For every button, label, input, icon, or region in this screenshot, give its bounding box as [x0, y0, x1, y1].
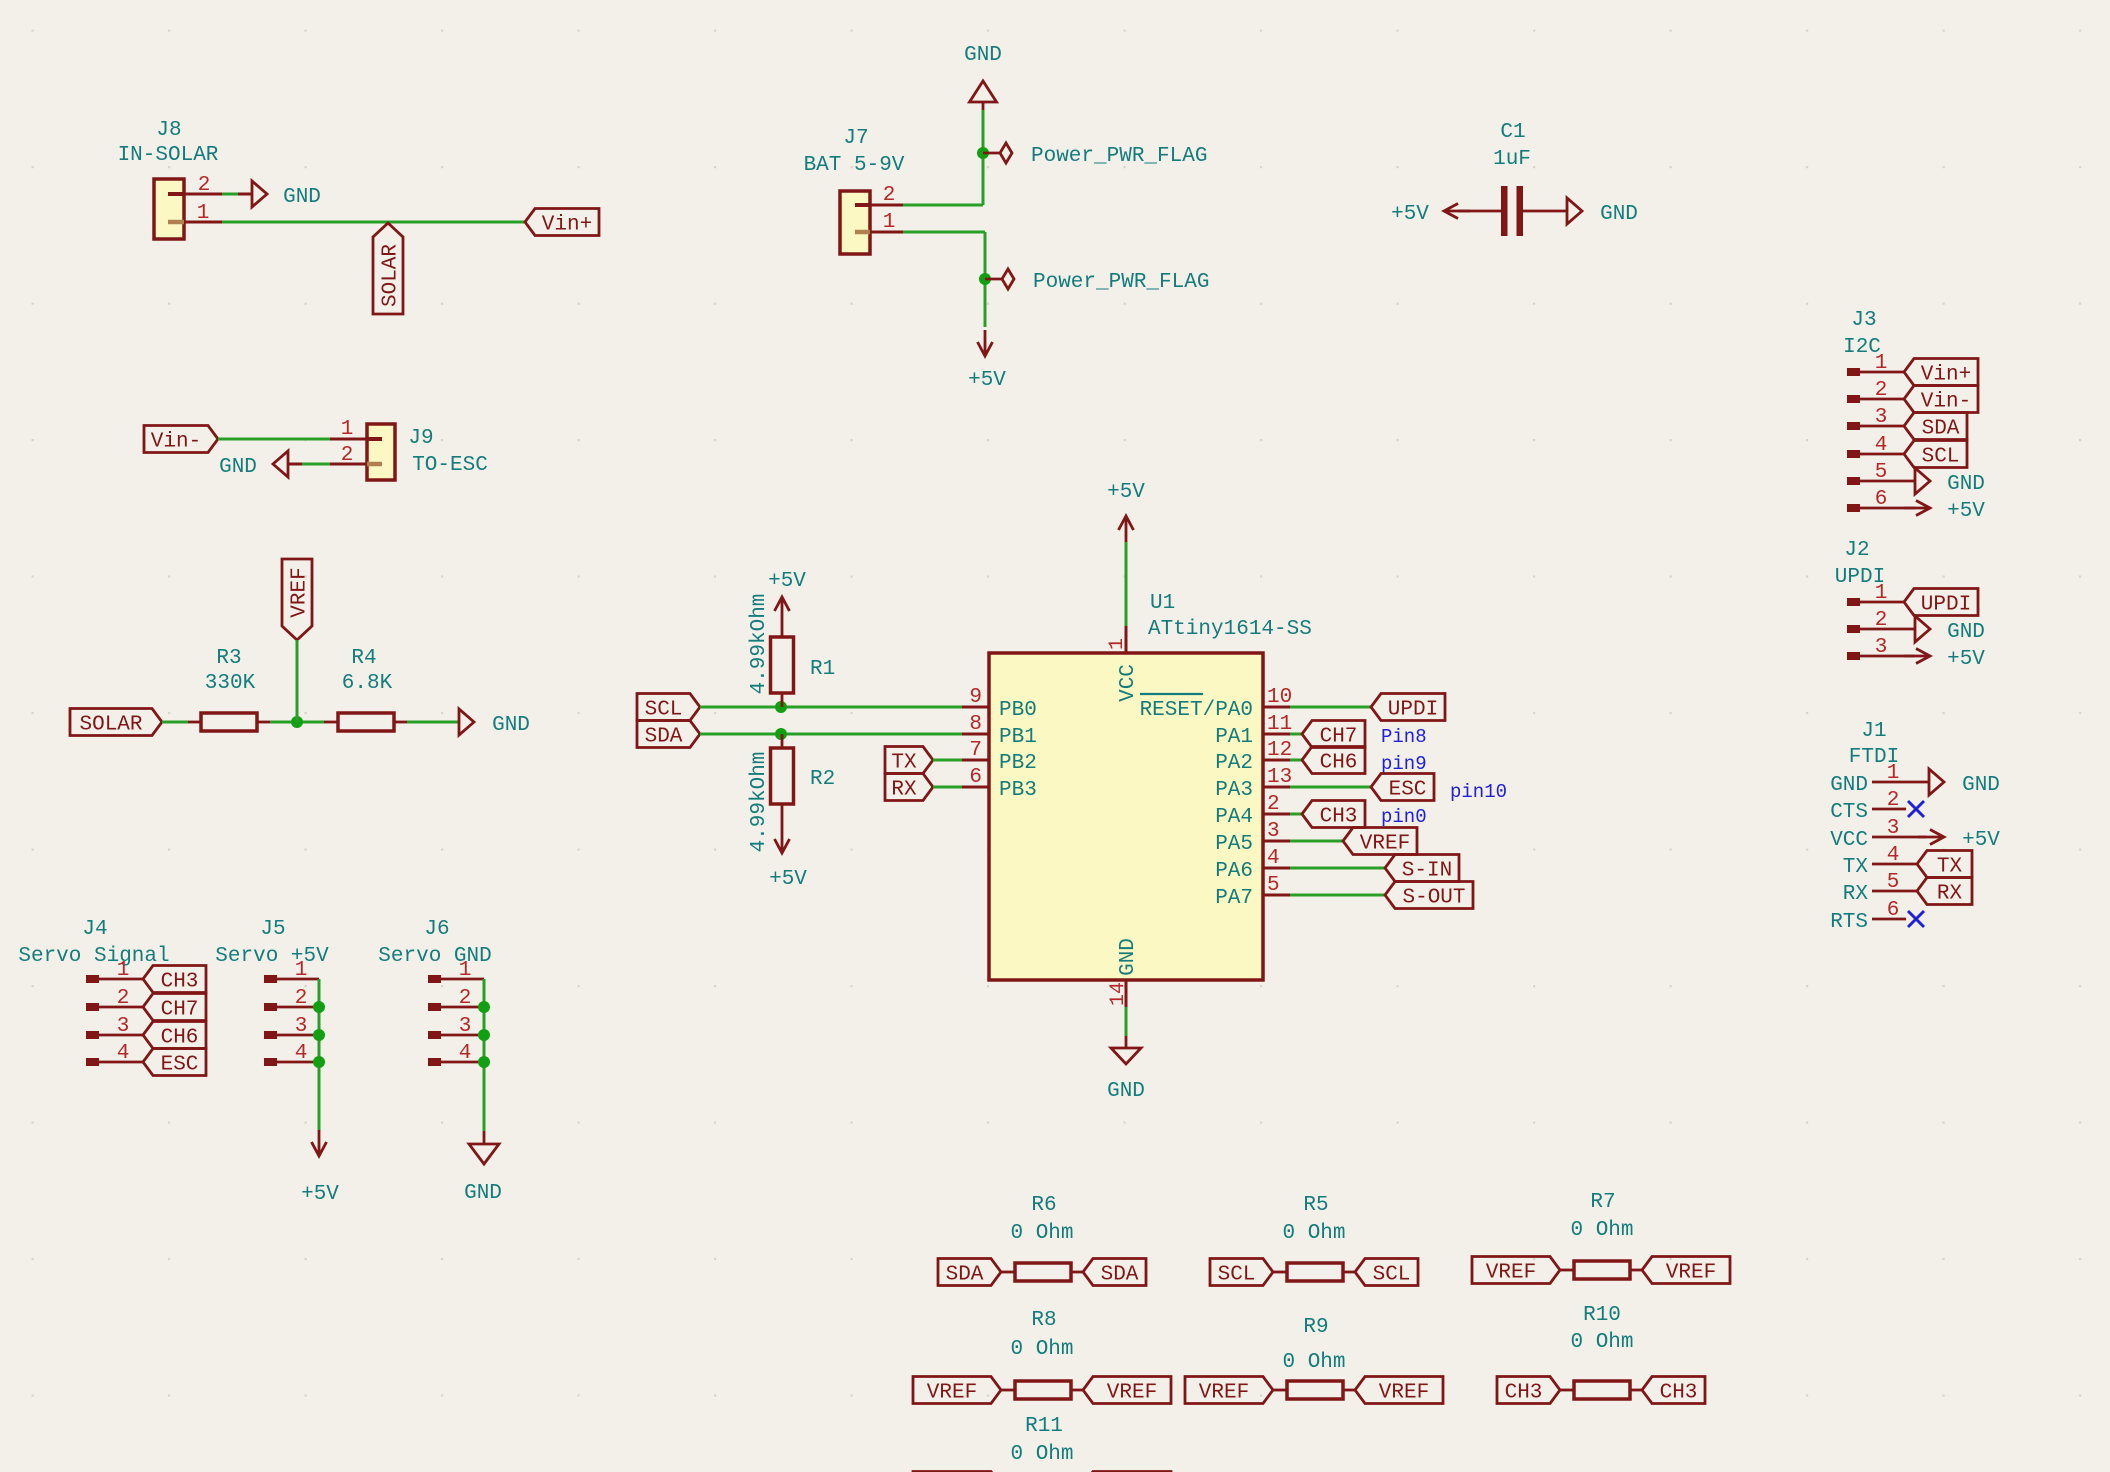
svg-text:CH3: CH3: [1660, 1382, 1698, 1405]
svg-text:0 Ohm: 0 Ohm: [1282, 1222, 1345, 1245]
svg-text:+5V: +5V: [768, 570, 806, 593]
svg-text:2: 2: [1267, 793, 1280, 816]
svg-text:0 Ohm: 0 Ohm: [1010, 1443, 1073, 1466]
svg-text:ATtiny1614-SS: ATtiny1614-SS: [1148, 618, 1312, 641]
svg-text:Servo Signal: Servo Signal: [18, 945, 169, 968]
svg-text:J4: J4: [82, 918, 107, 941]
svg-text:Vin-: Vin-: [1921, 391, 1971, 414]
svg-text:SDA: SDA: [946, 1264, 984, 1287]
svg-text:0 Ohm: 0 Ohm: [1570, 1219, 1633, 1242]
svg-text:R2: R2: [810, 768, 835, 791]
svg-text:CTS: CTS: [1830, 801, 1868, 824]
svg-text:1: 1: [459, 959, 472, 982]
svg-text:3: 3: [295, 1015, 308, 1038]
svg-text:VREF: VREF: [1199, 1382, 1249, 1405]
svg-text:J5: J5: [260, 918, 285, 941]
svg-text:CH6: CH6: [161, 1027, 199, 1050]
svg-text:2: 2: [295, 987, 308, 1010]
svg-text:GND: GND: [1107, 1080, 1145, 1103]
svg-text:J7: J7: [843, 127, 868, 150]
svg-text:VREF: VREF: [1360, 833, 1410, 856]
svg-text:S-IN: S-IN: [1402, 860, 1452, 883]
svg-text:Pin8: Pin8: [1381, 726, 1427, 748]
svg-text:ESC: ESC: [161, 1054, 199, 1077]
svg-text:4.99kOhm: 4.99kOhm: [748, 594, 771, 695]
svg-text:SCL: SCL: [645, 699, 683, 722]
svg-text:VREF: VREF: [289, 567, 312, 617]
svg-text:3: 3: [1267, 820, 1280, 843]
svg-text:4: 4: [1267, 847, 1280, 870]
svg-text:Servo +5V: Servo +5V: [215, 945, 329, 968]
svg-text:330K: 330K: [205, 672, 256, 695]
svg-text:+5V: +5V: [1391, 203, 1429, 226]
svg-text:TO-ESC: TO-ESC: [412, 454, 488, 477]
svg-text:SCL: SCL: [1373, 1264, 1411, 1287]
svg-text:+5V: +5V: [968, 369, 1006, 392]
svg-text:+5V: +5V: [301, 1183, 339, 1206]
svg-text:J3: J3: [1851, 309, 1876, 332]
svg-text:IN-SOLAR: IN-SOLAR: [118, 144, 219, 167]
svg-text:+5V: +5V: [1962, 829, 2000, 852]
svg-text:RESET/PA0: RESET/PA0: [1140, 699, 1253, 722]
svg-text:UPDI: UPDI: [1388, 699, 1438, 722]
svg-text:ESC: ESC: [1389, 779, 1427, 802]
svg-text:1: 1: [295, 959, 308, 982]
svg-text:J1: J1: [1861, 720, 1886, 743]
svg-text:PA4: PA4: [1215, 806, 1253, 829]
svg-text:1: 1: [1106, 638, 1129, 650]
svg-text:VREF: VREF: [1379, 1382, 1429, 1405]
svg-text:Vin-: Vin-: [151, 431, 201, 454]
svg-text:C1: C1: [1500, 121, 1525, 144]
svg-text:J2: J2: [1844, 539, 1869, 562]
svg-text:RX: RX: [1843, 883, 1869, 906]
svg-text:4: 4: [117, 1042, 130, 1065]
svg-text:GND: GND: [964, 44, 1002, 67]
svg-text:1: 1: [197, 202, 210, 225]
svg-text:2: 2: [459, 987, 472, 1010]
svg-text:RX: RX: [891, 779, 917, 802]
svg-text:GND: GND: [1947, 473, 1985, 496]
svg-text:CH7: CH7: [1320, 726, 1358, 749]
svg-text:4: 4: [295, 1042, 308, 1065]
svg-text:SCL: SCL: [1922, 446, 1960, 469]
svg-text:S-OUT: S-OUT: [1402, 887, 1465, 910]
svg-text:RX: RX: [1937, 883, 1963, 906]
svg-text:2: 2: [117, 987, 130, 1010]
svg-text:SDA: SDA: [1922, 418, 1960, 441]
svg-text:0 Ohm: 0 Ohm: [1570, 1331, 1633, 1354]
svg-text:10: 10: [1267, 686, 1292, 709]
svg-text:SOLAR: SOLAR: [380, 244, 403, 307]
svg-text:UPDI: UPDI: [1921, 594, 1971, 617]
svg-text:R11: R11: [1025, 1415, 1063, 1438]
svg-text:Servo GND: Servo GND: [378, 945, 491, 968]
svg-text:2: 2: [341, 444, 354, 467]
svg-text:GND: GND: [219, 456, 257, 479]
svg-text:GND: GND: [1830, 774, 1868, 797]
svg-text:J9: J9: [408, 427, 433, 450]
svg-text:SDA: SDA: [645, 726, 683, 749]
svg-text:PA2: PA2: [1215, 752, 1253, 775]
svg-text:+5V: +5V: [1947, 500, 1985, 523]
svg-text:TX: TX: [1843, 856, 1869, 879]
svg-text:J8: J8: [156, 119, 181, 142]
svg-text:+5V: +5V: [1947, 648, 1985, 671]
svg-text:PB3: PB3: [999, 779, 1037, 802]
svg-text:GND: GND: [492, 714, 530, 737]
svg-text:GND: GND: [283, 186, 321, 209]
svg-text:PA6: PA6: [1215, 860, 1253, 883]
svg-text:R7: R7: [1590, 1191, 1615, 1214]
svg-text:0 Ohm: 0 Ohm: [1282, 1351, 1345, 1374]
svg-text:GND: GND: [1947, 621, 1985, 644]
svg-text:CH3: CH3: [1505, 1382, 1543, 1405]
svg-text:3: 3: [117, 1015, 130, 1038]
svg-text:PA5: PA5: [1215, 833, 1253, 856]
svg-text:1: 1: [117, 959, 130, 982]
svg-text:R8: R8: [1031, 1309, 1056, 1332]
svg-text:PA3: PA3: [1215, 779, 1253, 802]
svg-text:GND: GND: [464, 1182, 502, 1205]
svg-text:pin10: pin10: [1450, 781, 1507, 803]
svg-text:R9: R9: [1303, 1316, 1328, 1339]
svg-text:Power_PWR_FLAG: Power_PWR_FLAG: [1033, 271, 1209, 294]
svg-text:Vin+: Vin+: [542, 214, 592, 237]
svg-text:PA1: PA1: [1215, 726, 1253, 749]
svg-text:+5V: +5V: [1107, 481, 1145, 504]
svg-text:R4: R4: [351, 647, 376, 670]
svg-text:VREF: VREF: [927, 1382, 977, 1405]
svg-text:12: 12: [1267, 739, 1292, 762]
svg-text:R10: R10: [1583, 1304, 1621, 1327]
svg-text:+5V: +5V: [769, 868, 807, 891]
svg-text:6: 6: [969, 766, 982, 789]
svg-text:J6: J6: [424, 918, 449, 941]
svg-text:SCL: SCL: [1218, 1264, 1256, 1287]
svg-text:VCC: VCC: [1830, 829, 1868, 852]
svg-text:2: 2: [198, 174, 211, 197]
svg-text:7: 7: [969, 739, 982, 762]
svg-text:VREF: VREF: [1107, 1382, 1157, 1405]
svg-text:4.99kOhm: 4.99kOhm: [748, 752, 771, 853]
svg-text:BAT 5-9V: BAT 5-9V: [804, 154, 905, 177]
svg-text:TX: TX: [891, 752, 917, 775]
svg-text:1uF: 1uF: [1493, 148, 1531, 171]
svg-text:PB0: PB0: [999, 699, 1037, 722]
svg-text:9: 9: [969, 686, 982, 709]
svg-text:pin0: pin0: [1381, 806, 1427, 828]
svg-text:13: 13: [1267, 766, 1292, 789]
svg-text:R3: R3: [216, 647, 241, 670]
svg-text:3: 3: [459, 1015, 472, 1038]
svg-text:0 Ohm: 0 Ohm: [1010, 1338, 1073, 1361]
svg-text:4: 4: [459, 1042, 472, 1065]
svg-text:TX: TX: [1937, 856, 1963, 879]
svg-text:VREF: VREF: [1666, 1262, 1716, 1285]
svg-text:PB1: PB1: [999, 726, 1037, 749]
svg-text:VCC: VCC: [1117, 664, 1140, 702]
svg-text:GND: GND: [1600, 203, 1638, 226]
svg-text:R6: R6: [1031, 1194, 1056, 1217]
svg-text:1: 1: [341, 418, 354, 441]
svg-text:CH3: CH3: [161, 971, 199, 994]
svg-text:5: 5: [1267, 874, 1280, 897]
svg-text:U1: U1: [1150, 592, 1175, 615]
svg-text:0 Ohm: 0 Ohm: [1010, 1222, 1073, 1245]
svg-text:CH7: CH7: [161, 999, 199, 1022]
svg-text:R1: R1: [810, 658, 835, 681]
svg-text:GND: GND: [1962, 774, 2000, 797]
svg-text:CH6: CH6: [1320, 752, 1358, 775]
svg-text:pin9: pin9: [1381, 753, 1427, 775]
svg-text:6.8K: 6.8K: [342, 672, 393, 695]
svg-text:SOLAR: SOLAR: [79, 714, 142, 737]
svg-text:VREF: VREF: [1486, 1262, 1536, 1285]
svg-text:Power_PWR_FLAG: Power_PWR_FLAG: [1031, 145, 1207, 168]
svg-text:RTS: RTS: [1830, 911, 1868, 934]
svg-text:SDA: SDA: [1101, 1264, 1139, 1287]
svg-text:CH3: CH3: [1320, 806, 1358, 829]
svg-text:PB2: PB2: [999, 752, 1037, 775]
svg-text:R5: R5: [1303, 1194, 1328, 1217]
svg-text:Vin+: Vin+: [1921, 364, 1971, 387]
svg-text:8: 8: [969, 713, 982, 736]
svg-text:11: 11: [1267, 713, 1292, 736]
svg-text:GND: GND: [1117, 938, 1140, 976]
svg-text:PA7: PA7: [1215, 887, 1253, 910]
